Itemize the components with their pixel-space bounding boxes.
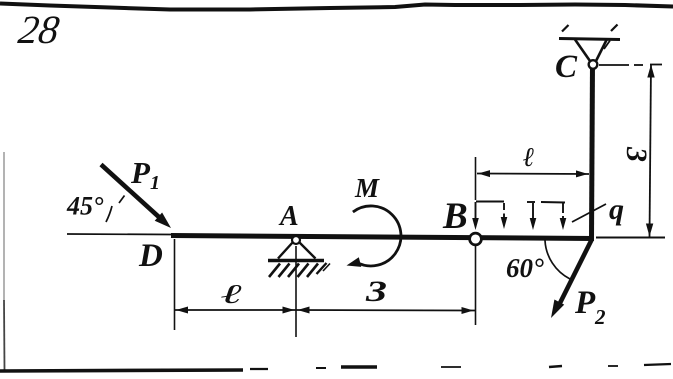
svg-text:B: B: [442, 196, 468, 237]
svg-text:D: D: [138, 238, 163, 274]
distributed load arrow 2: [501, 203, 508, 229]
dimension line l (B to C member): [477, 170, 589, 177]
label B: [442, 196, 468, 237]
label C: [555, 49, 578, 85]
extension line from corner (beam level): [596, 237, 665, 239]
svg-text:P: P: [574, 285, 596, 321]
distributed load arrow 1: [472, 202, 479, 230]
label P2: [574, 285, 606, 329]
distributed load top dashed line: [476, 202, 565, 203]
angle 45 label: [66, 192, 104, 221]
extension line at D: [174, 239, 176, 330]
support C hatch marks: [562, 25, 618, 50]
extension line at B (above beam): [475, 157, 477, 200]
svg-text:ℓ: ℓ: [221, 279, 243, 309]
label D: [138, 238, 163, 274]
label l (top): [523, 142, 535, 172]
svg-text:2: 2: [594, 305, 606, 329]
hinge B circle: [470, 233, 482, 245]
dimension line 3 (vertical): [646, 64, 655, 237]
support C ceiling line: [559, 39, 620, 40]
svg-text:60°: 60°: [506, 253, 544, 283]
support A hatching: [269, 263, 330, 277]
svg-text:ℓ: ℓ: [523, 142, 535, 172]
dimension line l (D to A): [175, 307, 297, 314]
angle 45 arc tick: [106, 196, 125, 223]
svg-text:C: C: [555, 49, 578, 85]
svg-text:1: 1: [150, 172, 160, 194]
distributed load arrow 4: [560, 203, 567, 230]
extension line at A: [295, 246, 297, 337]
label M: [354, 173, 380, 203]
leader line to q: [572, 204, 606, 222]
extension line from C pin: [599, 64, 662, 67]
support C triangle link: [575, 40, 607, 62]
svg-text:3: 3: [365, 275, 387, 308]
angle 60 label: [506, 253, 544, 283]
support C pin circle: [589, 60, 598, 69]
beam D-B-corner (horizontal member): [171, 236, 594, 239]
svg-text:q: q: [609, 193, 624, 226]
support A triangle: [278, 242, 316, 259]
vertical member corner-C: [592, 63, 593, 239]
support A pin circle: [292, 236, 300, 244]
left border line: [3, 152, 6, 370]
force P2 arrow: [551, 239, 592, 318]
moment M arc arrow: [347, 206, 401, 267]
reference line at D: [67, 233, 172, 236]
angle 60 arc: [545, 241, 570, 280]
label l (bottom): [221, 279, 243, 309]
distributed load arrow 3: [530, 203, 537, 230]
svg-text:M: M: [354, 173, 380, 203]
force P1 arrow: [101, 165, 171, 229]
svg-text:P: P: [130, 155, 151, 190]
label 3 (bottom): [365, 275, 387, 308]
label 3 (rotated, right): [620, 146, 653, 162]
figure number 28: [16, 7, 62, 52]
support A ground line: [268, 259, 324, 263]
extension line at B (below beam): [475, 245, 477, 325]
bottom border line: [0, 364, 671, 371]
label q: [609, 193, 624, 226]
label P1: [130, 155, 160, 194]
svg-text:28: 28: [16, 7, 62, 52]
top border line: [0, 4, 673, 10]
svg-text:3: 3: [620, 146, 653, 162]
svg-text:45°: 45°: [66, 192, 104, 221]
dimension line 3 (A to B): [296, 307, 476, 315]
label A: [278, 201, 299, 232]
svg-text:A: A: [278, 201, 299, 232]
